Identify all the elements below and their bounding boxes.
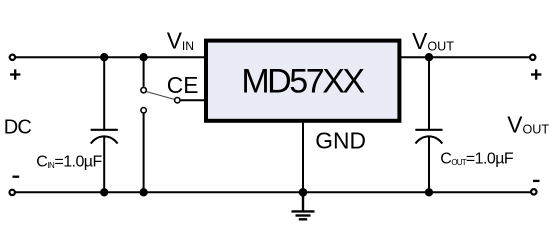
switch S1 CE select [141,87,180,113]
junction bottom rail / switch [139,188,147,196]
junction input rail / Cin [100,53,108,61]
terminal output positive [530,55,535,60]
terminal output negative [531,189,536,194]
svg-text:VOUT: VOUT [412,28,454,54]
wire CE pin [180,99,206,101]
capacitor C_OUT [415,130,442,144]
capacitor C_IN [91,130,118,144]
svg-text:VOUT: VOUT [507,111,549,137]
wire switch lower lead [143,113,145,192]
svg-text:COUT=1.0µF: COUT=1.0µF [440,151,514,168]
junction input rail / switch [139,53,147,61]
wire output top rail [400,56,531,58]
wire switch upper lead [143,57,145,86]
svg-text:DC: DC [4,117,32,139]
junction bottom rail / Cin [100,188,108,196]
wire Cout top lead [428,57,430,129]
label + output positive [531,69,541,79]
svg-text:VIN: VIN [167,28,194,54]
svg-text:CE: CE [167,72,199,98]
wire GND pin lead [302,121,304,192]
junction bottom rail / GND [299,188,308,197]
junction bottom rail / Cout [425,188,433,196]
wire input top rail [16,56,207,58]
wire bottom ground rail [16,191,531,193]
label + input positive [10,69,20,79]
svg-text:CIN=1.0µF: CIN=1.0µF [36,154,102,171]
terminal input negative [10,190,15,195]
regulator U1 MD57XX body [206,41,399,121]
wire Cin bottom lead [103,137,105,193]
ground symbol [292,192,315,219]
wire Cout bottom lead [428,137,430,193]
terminal input positive [10,55,15,60]
svg-text:GND: GND [315,128,366,154]
junction output rail / Cout [425,53,433,61]
wire Cin top lead [103,57,105,129]
label - input negative [13,176,20,178]
label - output negative [533,180,540,182]
svg-text:MD57XX: MD57XX [241,62,364,100]
